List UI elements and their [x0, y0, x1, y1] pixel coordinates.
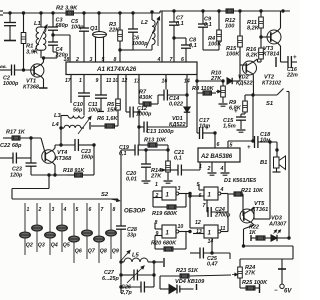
svg-text:0,01: 0,01 [126, 177, 137, 183]
svg-text:S2: S2 [101, 192, 109, 198]
svg-text:КТ368: КТ368 [23, 85, 40, 91]
svg-text:КТ814: КТ814 [263, 52, 280, 58]
resistor R12 [225, 9, 236, 30]
svg-text:4: 4 [220, 187, 224, 193]
resistor R9 [229, 95, 253, 114]
node pin3 [90, 57, 93, 63]
inductor L1 [34, 13, 47, 58]
capacitor C19 [119, 145, 168, 157]
svg-text:+: + [293, 55, 297, 61]
svg-text:R20 680K: R20 680K [151, 241, 177, 247]
svg-text:Q4: Q4 [51, 243, 58, 249]
node pin13 [134, 79, 140, 85]
ground [164, 181, 173, 183]
wire VT4 emitter loop [12, 175, 118, 199]
capacitor C27 [102, 262, 155, 283]
wire VT5 emitter [244, 222, 255, 246]
svg-text:L3: L3 [54, 113, 62, 119]
transistor VT5 [240, 194, 268, 223]
capacitor C28 [116, 150, 137, 293]
crystal Q9 [106, 213, 119, 259]
capacitor C22 [0, 143, 31, 164]
logic gate D1.3 [155, 220, 192, 238]
svg-text:10: 10 [178, 224, 184, 230]
capacitor C4 [48, 42, 69, 59]
svg-text:2: 2 [155, 193, 159, 199]
svg-text:S1: S1 [266, 101, 273, 107]
svg-text:1: 1 [208, 231, 212, 237]
svg-text:27K: 27K [150, 174, 162, 180]
svg-text:L5: L5 [132, 253, 140, 259]
logic D1 label [224, 178, 257, 184]
svg-text:8: 8 [113, 207, 116, 213]
svg-text:1: 1 [208, 193, 212, 199]
svg-text:Q9: Q9 [112, 249, 119, 255]
wire top supply rail [8, 10, 290, 14]
svg-text:R25 100K: R25 100K [242, 280, 268, 286]
svg-text:120p: 120p [10, 172, 23, 178]
node pin1b [79, 78, 82, 84]
wire right drop [288, 95, 290, 238]
resistor R8 [192, 81, 216, 95]
node pin4 [157, 57, 161, 63]
svg-text:0,1: 0,1 [176, 21, 184, 27]
svg-text:4: 4 [63, 207, 67, 213]
op-amp A1 K174XA26 [66, 62, 197, 75]
svg-text:0,1: 0,1 [204, 22, 212, 28]
svg-text:C13 1000p: C13 1000p [146, 129, 174, 135]
capacitor C16 [281, 55, 298, 78]
svg-text:R17 1K: R17 1K [6, 130, 26, 136]
svg-text:7: 7 [101, 207, 104, 213]
wire collector node [42, 52, 57, 59]
inductor L5 [121, 251, 154, 263]
capacitor C20 [126, 149, 151, 183]
svg-text:2: 2 [207, 166, 211, 172]
capacitor C8 [173, 37, 197, 62]
transistor VT3 [261, 11, 281, 62]
svg-text:C22 68p: C22 68p [0, 143, 22, 149]
wire LED row terminal [249, 225, 259, 242]
svg-text:9: 9 [156, 231, 159, 237]
svg-text:вв.: вв. [0, 64, 7, 69]
svg-text:3: 3 [52, 207, 55, 213]
diode VD1 [169, 75, 190, 129]
resistor R10 pot [196, 71, 226, 104]
svg-text:15K: 15K [107, 108, 118, 114]
node pin6t [181, 57, 184, 63]
svg-text:Q5: Q5 [63, 243, 70, 249]
resistor R23 [160, 268, 231, 278]
svg-text:R23 51K: R23 51K [176, 268, 199, 274]
svg-text:56p: 56p [73, 107, 83, 113]
resistor R3 [108, 13, 122, 62]
node pinA2-4 [220, 166, 224, 172]
wire VT5 collector [251, 207, 270, 219]
svg-text:B1: B1 [260, 160, 267, 166]
capacitor C15 [223, 109, 246, 130]
capacitor C9 [198, 11, 212, 50]
svg-text:160p: 160p [81, 154, 94, 160]
svg-text:4: 4 [220, 166, 224, 172]
capacitor C5 [71, 13, 89, 62]
resistor R2 [56, 6, 78, 16]
svg-text:27K: 27K [244, 271, 256, 277]
node contact 6 [87, 203, 92, 213]
node contact 1 [25, 203, 30, 213]
svg-text:1,5m: 1,5m [223, 124, 236, 130]
ground [142, 181, 151, 183]
svg-text:R18 91K: R18 91K [63, 168, 85, 174]
svg-text:2: 2 [38, 207, 42, 213]
capacitor C14 [158, 75, 187, 108]
wire emitter down [252, 95, 254, 142]
wire emitter row [31, 174, 67, 176]
svg-text:КТ368: КТ368 [55, 156, 72, 162]
inductor L3 [54, 113, 84, 119]
svg-text:2,7p: 2,7p [120, 290, 132, 296]
diode VD2 [227, 65, 240, 84]
wire gate link [189, 194, 191, 229]
capacitor C26 [120, 275, 154, 296]
crystal Q1 [90, 13, 107, 62]
svg-text:VD4 КВ109: VD4 КВ109 [175, 279, 205, 285]
svg-text:L1: L1 [34, 21, 41, 27]
wire speaker feed [269, 141, 278, 151]
resistor R25 [240, 280, 268, 293]
svg-text:A1 К174ХА26: A1 К174ХА26 [96, 66, 137, 73]
transistor VT1 [23, 58, 44, 91]
svg-text:Q1: Q1 [90, 26, 98, 32]
svg-text:6: 6 [89, 207, 92, 213]
capacitor C12 [126, 75, 152, 118]
resistor R21 [228, 188, 264, 196]
node contact OBZOR [124, 209, 146, 215]
op-amp A2 BA5386 [198, 148, 240, 162]
svg-text:27K: 27K [210, 76, 222, 82]
inductor L2 [133, 12, 160, 50]
svg-text:33p: 33p [127, 232, 137, 238]
node pin11 [106, 78, 111, 84]
svg-text:КТ3102: КТ3102 [262, 81, 281, 87]
wire pin2 gnd [211, 162, 213, 172]
svg-text:R13 10K: R13 10K [144, 138, 167, 144]
resistor R15 [226, 11, 246, 65]
capacitor C11 [88, 75, 107, 114]
svg-text:1: 1 [166, 193, 170, 199]
node contact 2 [37, 203, 42, 213]
svg-text:1K: 1K [249, 230, 257, 236]
crystal Q4 [45, 213, 58, 255]
svg-text:100p: 100p [71, 25, 84, 31]
capacitor C10 [73, 93, 90, 115]
svg-text:R21 10K: R21 10K [241, 188, 264, 194]
crystal Q2 [20, 213, 33, 255]
svg-text:11: 11 [106, 78, 111, 84]
svg-text:100K: 100K [208, 42, 222, 48]
node pin2 [75, 57, 79, 63]
svg-text:1: 1 [27, 207, 30, 213]
switch S2 wiper [101, 192, 120, 201]
wire pin4 gnd [224, 162, 226, 172]
svg-text:22K: 22K [108, 28, 120, 34]
svg-text:Q2: Q2 [26, 243, 33, 249]
svg-text:L2: L2 [141, 20, 149, 26]
svg-text:R6 1,6K: R6 1,6K [97, 116, 118, 122]
node pin14 [184, 79, 190, 85]
svg-text:430K: 430K [138, 95, 153, 101]
resistor R18 [63, 168, 94, 177]
ground [237, 130, 246, 132]
battery G1 [274, 259, 292, 295]
resistor R1 [21, 13, 39, 71]
inductor L4 [52, 117, 91, 135]
wire osc tank [60, 116, 62, 147]
wire LED block bottom [242, 245, 293, 259]
svg-text:7: 7 [203, 203, 207, 209]
svg-text:+: + [247, 145, 251, 151]
node terminal c16 [275, 57, 277, 67]
node pin5 [102, 57, 105, 63]
node contact 4 [62, 203, 67, 213]
node pin16 [162, 79, 168, 85]
node pin7 [170, 57, 174, 63]
svg-text:1000p: 1000p [132, 41, 148, 47]
wire pin6 A2 [214, 132, 220, 148]
ground [219, 104, 228, 106]
capacitor C23b [75, 139, 95, 160]
svg-text:0,1: 0,1 [189, 43, 197, 49]
crystal Q8 [94, 213, 107, 263]
svg-text:ОБЗОР: ОБЗОР [124, 209, 146, 215]
svg-text:+: + [234, 109, 238, 115]
svg-text:11: 11 [220, 226, 225, 232]
resistor R13 [139, 127, 168, 150]
svg-text:Q6: Q6 [75, 249, 82, 255]
svg-text:3: 3 [178, 186, 181, 192]
capacitor C13 [138, 112, 187, 135]
crystal Q3 [32, 213, 45, 252]
node pinA2-1 [199, 164, 202, 170]
resistor R22 [256, 236, 265, 240]
diode VD3 LED [265, 216, 290, 242]
resistor R4 [203, 11, 222, 50]
svg-text:А2 ВА5386: А2 ВА5386 [200, 154, 233, 160]
resistor R17 [3, 130, 41, 141]
svg-text:АЛ307: АЛ307 [268, 222, 287, 228]
svg-text:100p: 100p [88, 107, 101, 113]
logic gate D1.2 [189, 182, 228, 209]
node pinA2-2 [207, 166, 211, 172]
svg-text:L4: L4 [52, 122, 60, 128]
capacitor C17 [197, 93, 215, 139]
capacitor C21 [164, 150, 200, 176]
capacitor C3 [48, 13, 69, 42]
wire tuning supply [240, 258, 293, 260]
svg-text:1: 1 [155, 182, 158, 188]
wire C3C4 tap [52, 34, 70, 62]
capacitor C6 [119, 13, 148, 51]
capacitor C7 [169, 11, 184, 62]
svg-text:2: 2 [75, 57, 79, 63]
svg-text:6...25p: 6...25p [102, 276, 119, 282]
transistor VT2 [236, 59, 281, 95]
svg-text:8,2K: 8,2K [246, 53, 259, 59]
capacitor C18 [247, 132, 277, 151]
svg-text:100: 100 [225, 24, 235, 30]
svg-text:6V: 6V [284, 289, 292, 295]
svg-text:680p: 680p [56, 23, 69, 29]
svg-text:8: 8 [155, 220, 158, 226]
svg-text:5: 5 [197, 182, 200, 188]
ground [221, 173, 230, 175]
resistor R20 [151, 232, 186, 252]
resistor R6 [90, 116, 118, 130]
crystal Q5 [57, 213, 70, 252]
crystal Q7 [82, 213, 96, 259]
svg-text:0,1: 0,1 [119, 151, 127, 157]
logic gate D1.1 [153, 182, 191, 207]
svg-text:0,47: 0,47 [207, 261, 218, 267]
transistor VT4 [41, 138, 72, 175]
switch S1 [252, 89, 289, 108]
resistor R16 [246, 36, 263, 62]
resistor R24 pot [232, 259, 256, 288]
ground [208, 173, 217, 175]
node contact 5 [74, 203, 79, 213]
node contact 7 [99, 203, 104, 213]
svg-text:1: 1 [166, 231, 170, 237]
svg-text:8,2K: 8,2K [247, 26, 260, 32]
wire pin5 A2 [228, 141, 253, 149]
svg-text:−: − [274, 288, 278, 294]
wire right osc [93, 145, 95, 175]
svg-text:0,022: 0,022 [169, 102, 184, 108]
node terminal L5 [153, 258, 164, 267]
svg-text:13: 13 [196, 229, 202, 235]
speaker B1 [260, 150, 286, 172]
resistor R5 [107, 75, 120, 127]
wire pin17 [70, 75, 72, 104]
node pin17 [65, 78, 72, 84]
crystal Q6 [69, 213, 82, 263]
wire audio down [269, 142, 271, 219]
wire wiper feed [0, 0, 1, 1]
wire pin4 [161, 11, 163, 62]
wire pin14 down [211, 238, 213, 254]
svg-text:R8 110K: R8 110K [192, 86, 215, 92]
node antenna input [0, 64, 7, 69]
node pin18 [64, 57, 70, 63]
antenna W1 [0, 11, 8, 15]
resistor R14 pot [150, 149, 170, 180]
logic gate D1.4 [190, 194, 228, 246]
node pin9 [96, 78, 99, 84]
svg-text:6: 6 [199, 193, 202, 199]
svg-text:1000p: 1000p [3, 81, 19, 87]
svg-text:6: 6 [217, 142, 220, 148]
ground [39, 87, 48, 89]
resistor R11 [247, 11, 263, 37]
node contact 3 [50, 203, 55, 213]
node contact 8 [111, 203, 116, 213]
capacitor C1 [4, 13, 16, 40]
resistor R19 [152, 194, 186, 218]
svg-text:Q3: Q3 [38, 243, 45, 249]
resistor R7 [138, 75, 158, 114]
ground [4, 40, 16, 42]
svg-text:1: 1 [79, 78, 82, 84]
svg-text:Q8: Q8 [100, 249, 107, 255]
capacitor C25 [190, 248, 230, 268]
svg-text:R19 680K: R19 680K [152, 211, 178, 217]
node pin10 [113, 78, 119, 84]
svg-text:12: 12 [195, 220, 201, 226]
node pin12 [122, 78, 128, 84]
capacitor C24 [207, 200, 231, 218]
wire pin1 [83, 75, 85, 94]
svg-text:100K: 100K [226, 52, 240, 58]
svg-text:22m: 22m [286, 72, 298, 78]
wire collector row [55, 144, 75, 146]
diode VD4 varicap [160, 276, 205, 294]
svg-text:9: 9 [96, 78, 99, 84]
svg-text:10m: 10m [199, 124, 210, 130]
svg-text:R2 3,9K: R2 3,9K [56, 6, 78, 12]
capacitor C23a [10, 138, 37, 178]
capacitor C2 [0, 65, 34, 87]
svg-text:5: 5 [76, 207, 79, 213]
svg-text:0,1: 0,1 [174, 156, 182, 162]
svg-text:Q7: Q7 [88, 249, 96, 255]
node pin8 [114, 57, 117, 63]
svg-text:D1 К561ЛЕ5: D1 К561ЛЕ5 [224, 178, 257, 184]
